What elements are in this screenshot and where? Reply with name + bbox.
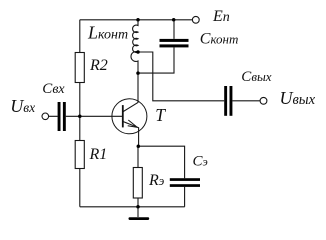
svg-text:Uвых: Uвых bbox=[280, 88, 316, 108]
svg-text:Rэ: Rэ bbox=[148, 172, 165, 189]
svg-text:T: T bbox=[155, 105, 166, 125]
svg-text:Свых: Свых bbox=[241, 69, 271, 85]
svg-text:Lконт: Lконт bbox=[87, 23, 128, 43]
svg-text:Сконт: Сконт bbox=[200, 31, 239, 48]
svg-text:R2: R2 bbox=[89, 57, 108, 74]
svg-text:R1: R1 bbox=[89, 146, 108, 163]
svg-text:Uвх: Uвх bbox=[10, 96, 35, 116]
svg-text:Eп: Eп bbox=[212, 8, 230, 25]
svg-text:Свх: Свх bbox=[42, 81, 65, 97]
svg-text:Сэ: Сэ bbox=[193, 153, 208, 169]
